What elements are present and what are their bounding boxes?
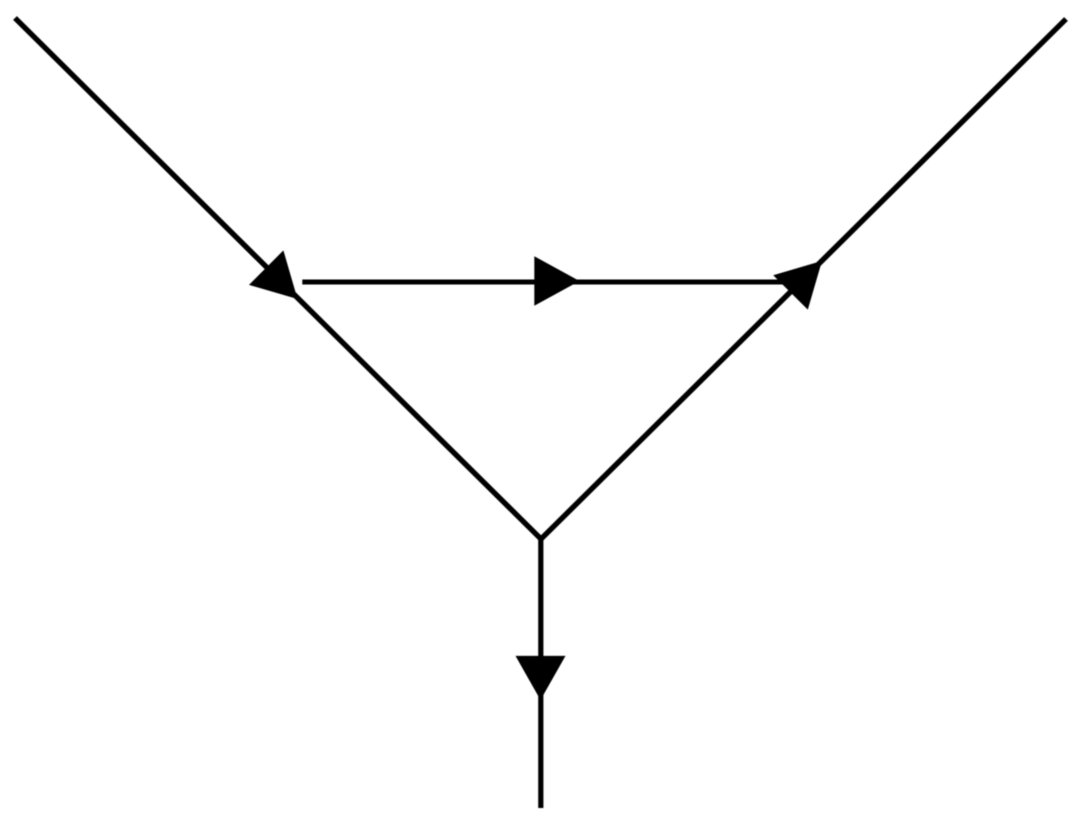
arrowhead: on right diagonal, pointing up-right xyxy=(773,261,822,310)
wire: vertical line from bottom vertex downward xyxy=(538,538,543,808)
arrowhead: on vertical line, pointing down xyxy=(516,656,566,700)
arrowhead: on left diagonal, pointing down-right xyxy=(249,250,298,299)
wire: right outgoing diagonal line from bottom vertex to top-right xyxy=(541,19,1066,539)
wire: left incoming diagonal line from top-left to bottom vertex xyxy=(15,18,541,539)
wire: horizontal connector line between the two diagonals xyxy=(302,279,788,284)
arrowhead: middle of horizontal line, pointing right xyxy=(534,256,579,306)
